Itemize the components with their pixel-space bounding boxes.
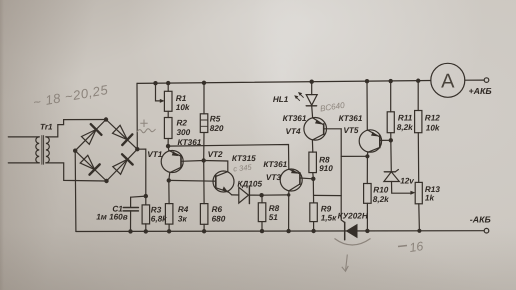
wire bridge plus up to top bus	[136, 83, 138, 149]
wiper arrow into R13	[410, 191, 415, 195]
resistor R5	[200, 83, 208, 161]
svg-text:10k: 10k	[426, 124, 440, 133]
resistor R8b (910)	[309, 152, 317, 179]
node R1 top bus	[166, 81, 170, 85]
svg-text:51: 51	[269, 213, 279, 222]
node R11 top bus	[389, 79, 393, 83]
resistor R3	[142, 196, 150, 231]
svg-text:Tr1: Tr1	[40, 122, 53, 131]
wire VT3 collector to bottom bus	[288, 195, 290, 231]
node R6 bottom	[202, 229, 206, 233]
wire branch to VT5 collector	[341, 155, 367, 157]
diode VD lower-left	[80, 155, 94, 169]
diode bridge edges	[75, 120, 106, 151]
node R2 bottom / VT1 emitter	[166, 144, 170, 148]
svg-text:R3: R3	[151, 205, 162, 214]
wire bridge plus to C1/R3 column	[137, 149, 146, 196]
svg-text:R5: R5	[210, 115, 221, 124]
wire VT2 emitter to diode	[232, 194, 239, 196]
transistor VT1	[161, 146, 204, 180]
LED HL1	[294, 82, 317, 118]
ammeter PA1	[431, 63, 484, 97]
wire secondary top to bridge	[46, 120, 106, 137]
node VT3 emitter / R8b bottom / R9 top	[311, 177, 315, 181]
potentiometer R1	[156, 83, 173, 111]
svg-text:R12: R12	[425, 113, 440, 122]
node R13 bottom bus	[417, 229, 421, 233]
svg-text:КТ361: КТ361	[178, 138, 202, 147]
capacitor C1	[123, 197, 138, 231]
svg-text:VT5: VT5	[343, 126, 358, 135]
node VT3 collector junction	[287, 193, 290, 196]
node C1 bottom	[128, 229, 132, 233]
pencil scribble	[137, 129, 156, 133]
node HL1 top bus	[310, 80, 314, 84]
wire to C1	[131, 196, 146, 197]
svg-text:R9: R9	[321, 205, 332, 214]
transistor VT4	[304, 118, 341, 153]
wire VT2 collector	[204, 161, 228, 172]
node VT1 base / R5-R6 column	[202, 158, 206, 162]
pencil arrow	[342, 255, 349, 272]
resistor R4	[165, 180, 173, 231]
wire R9 gate tap	[314, 194, 342, 196]
svg-text:3к: 3к	[178, 214, 188, 223]
node VT5 top bus	[365, 79, 369, 83]
potentiometer R13	[415, 182, 422, 230]
node bridge right	[135, 147, 139, 151]
svg-text:R4: R4	[178, 205, 189, 214]
node R1 wiper bus	[153, 81, 157, 85]
svg-text:КУ202Н: КУ202Н	[338, 211, 369, 220]
svg-text:16: 16	[408, 239, 424, 255]
svg-text:1м 160в: 1м 160в	[96, 213, 128, 222]
wire bottom bus	[76, 230, 484, 233]
svg-text:8,2k: 8,2k	[397, 123, 413, 132]
svg-text:R11: R11	[398, 114, 413, 123]
transistor VT3	[280, 169, 313, 195]
diode VD upper-left	[82, 130, 97, 145]
transistor VT5	[359, 130, 391, 157]
node R8a bottom	[260, 229, 264, 233]
svg-text:12v: 12v	[400, 177, 414, 186]
svg-text:8,2k: 8,2k	[373, 195, 389, 204]
zener diode VD3 12v	[384, 170, 412, 194]
wire bus to VT5	[366, 81, 368, 130]
node R11 bottom / VT5 base	[389, 138, 393, 142]
svg-text:6,8k: 6,8k	[151, 215, 167, 224]
resistor R11	[387, 81, 394, 140]
wire VT2 base	[169, 179, 216, 182]
diode VD lower-right	[113, 159, 128, 174]
wire VT1 emitter net to VT3 base (long)	[168, 145, 289, 170]
node bridge left	[73, 149, 77, 153]
node R10 bottom bus	[365, 229, 369, 233]
node KD105 cathode / R8a top	[259, 193, 263, 197]
resistor R12	[415, 81, 422, 183]
terminal +AKB	[484, 78, 489, 83]
svg-text:-АКБ: -АКБ	[470, 214, 491, 224]
pencil plus	[140, 120, 147, 128]
svg-text:R2: R2	[177, 119, 188, 128]
svg-text:с 345: с 345	[233, 163, 253, 174]
node R9 bottom	[311, 229, 315, 233]
resistor R9	[310, 179, 318, 231]
svg-text:VT3: VT3	[266, 173, 281, 182]
wire bridge minus down	[74, 151, 77, 232]
diode VD2 KD105	[239, 186, 262, 204]
svg-text:ВС640: ВС640	[319, 101, 345, 114]
diode VD upper-right	[113, 125, 128, 139]
pencil minus16	[398, 246, 407, 247]
wire to VT3 collector	[262, 194, 289, 196]
node VT3 collector bus	[286, 229, 290, 233]
svg-text:+АКБ: +АКБ	[469, 86, 492, 96]
resistor R2	[164, 111, 172, 146]
node VT1 collector / R4 / VT2 base	[167, 178, 171, 182]
resistor R6	[200, 161, 208, 232]
resistor R10	[364, 156, 372, 231]
wire primary bottom	[8, 162, 39, 164]
svg-text:HL1: HL1	[273, 95, 289, 104]
svg-text:VT1: VT1	[147, 150, 162, 159]
node C1/R3 junction	[144, 194, 148, 198]
transformer Tr1	[36, 136, 50, 165]
wire top bus	[137, 81, 431, 84]
svg-text:VT4: VT4	[286, 127, 301, 136]
node R12 top bus	[416, 79, 420, 83]
svg-text:R8: R8	[269, 204, 280, 213]
node VT5 collector / R10	[365, 154, 369, 158]
node bridge bottom	[104, 179, 108, 183]
resistor R8a (51)	[258, 195, 266, 231]
svg-text:А: А	[441, 71, 455, 93]
svg-text:R6: R6	[212, 205, 223, 214]
node R5 top bus	[202, 81, 206, 85]
svg-text:КТ315: КТ315	[232, 154, 256, 163]
svg-text:КТ361: КТ361	[339, 114, 363, 123]
node R4 bottom	[167, 229, 171, 233]
thyristor VS KU202N	[345, 222, 358, 239]
wire primary top	[8, 136, 39, 138]
transistor VT2	[213, 171, 234, 195]
svg-text:910: 910	[319, 164, 333, 173]
pencil arc under thyristor	[335, 239, 371, 246]
terminal -AKB	[484, 228, 489, 233]
svg-text:~ 18 ~20,25: ~ 18 ~20,25	[32, 82, 110, 110]
svg-text:680: 680	[212, 214, 226, 223]
wire R11 to zener	[390, 140, 393, 171]
svg-text:820: 820	[210, 124, 224, 133]
svg-text:1,5к: 1,5к	[321, 214, 337, 223]
svg-text:КТ361: КТ361	[283, 114, 307, 123]
svg-text:300: 300	[177, 128, 191, 137]
svg-text:КТ361: КТ361	[263, 160, 287, 169]
svg-text:КД105: КД105	[237, 180, 262, 189]
svg-text:1k: 1k	[425, 193, 435, 202]
svg-text:VT2: VT2	[208, 150, 223, 159]
svg-text:10k: 10k	[176, 103, 190, 112]
wire VT4 base down to VT5 collector net	[341, 129, 345, 223]
svg-text:R8: R8	[319, 155, 330, 164]
svg-text:R1: R1	[176, 94, 187, 103]
node bridge top	[104, 117, 108, 121]
svg-text:R10: R10	[373, 186, 388, 195]
wire secondary bottom to bridge	[46, 163, 107, 181]
node R3 bottom	[144, 229, 148, 233]
